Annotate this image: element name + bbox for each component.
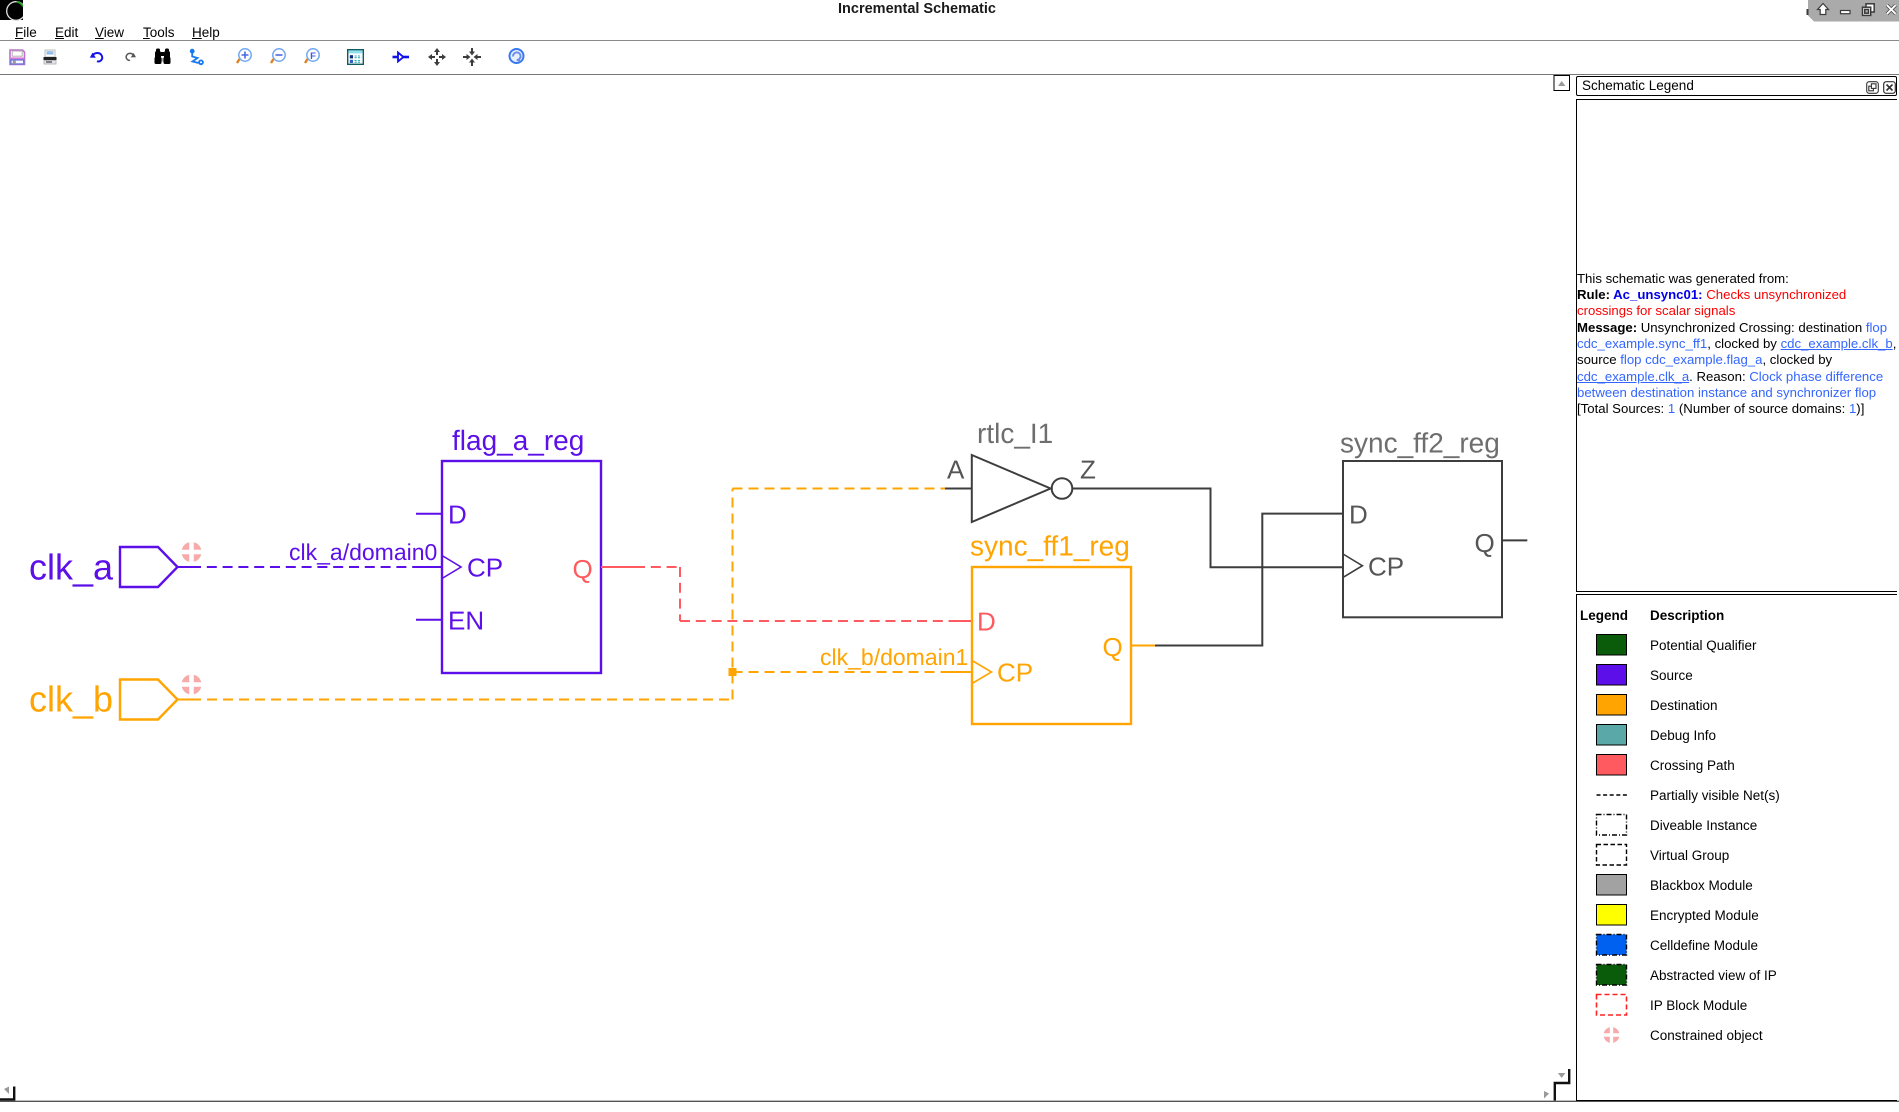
redo bbox=[126, 53, 134, 60]
close bbox=[1887, 5, 1896, 14]
options dialog bbox=[348, 50, 364, 65]
legend swatch: Crossing Path bbox=[1597, 755, 1627, 776]
flop sync_ff2_reg : body bbox=[1343, 461, 1502, 617]
inverter rtlc_I1 : triangle bbox=[972, 455, 1051, 522]
net rtlc_I1.Z -> sync_ff2.CP (gray) bbox=[1072, 489, 1343, 568]
panel legend box bbox=[1576, 594, 1897, 1101]
svg-text:clk_b/domain1: clk_b/domain1 bbox=[820, 644, 968, 670]
legend swatch: Encrypted Module bbox=[1597, 905, 1627, 926]
net sync_ff1.Q -> sync_ff2.D (gray) bbox=[1155, 514, 1343, 646]
crossing net flag_a_reg.Q -> sync_ff1_reg.D (red) bbox=[601, 566, 635, 568]
legend swatch: Constrained object bbox=[1602, 1025, 1621, 1045]
input port clk_b : symbol bbox=[120, 680, 178, 720]
svg-text:Q: Q bbox=[573, 554, 593, 584]
input port clk_a : symbol bbox=[120, 547, 178, 587]
pin EN stub (flag_a_reg) bbox=[416, 619, 442, 621]
TOOLBAR ICONS bbox=[0, 46, 540, 72]
panel title buttons bbox=[1866, 81, 1898, 95]
svg-text:CP: CP bbox=[1368, 552, 1404, 582]
svg-text:CP: CP bbox=[997, 658, 1033, 688]
svg-text:Q: Q bbox=[1475, 528, 1495, 558]
svg-text:rtlc_I1: rtlc_I1 bbox=[977, 418, 1053, 449]
pin Q stub / output net (sync_ff2_reg) bbox=[1502, 539, 1527, 541]
minimize bbox=[1841, 11, 1851, 14]
svg-text:clk_b: clk_b bbox=[29, 679, 113, 720]
legend swatch: Destination bbox=[1597, 695, 1627, 716]
inverter rtlc_I1 : bubble bbox=[1052, 478, 1073, 499]
panel title bar bbox=[1576, 76, 1897, 96]
legend swatch: Abstracted view of IP bbox=[1597, 965, 1627, 986]
zoom in bbox=[237, 49, 251, 63]
inverter rtlc_I1 : pin A stub bbox=[945, 488, 972, 490]
svg-text:clk_a: clk_a bbox=[29, 547, 114, 588]
pin D stub (flag_a_reg) bbox=[416, 513, 442, 515]
menu bar bbox=[15, 25, 37, 40]
constrained object icon (clk_a) bbox=[181, 541, 202, 563]
svg-text:Z: Z bbox=[1080, 455, 1096, 485]
window buttons bbox=[1806, 0, 1899, 23]
svg-text:clk_a/domain0: clk_a/domain0 bbox=[289, 539, 437, 565]
probe bbox=[393, 53, 410, 62]
window title bar bbox=[0, 0, 1899, 22]
svg-text:A: A bbox=[947, 455, 965, 485]
junction (clk_b net) bbox=[729, 668, 737, 676]
legend swatch: Celldefine Module bbox=[1597, 935, 1627, 956]
svg-text:EN: EN bbox=[448, 606, 484, 636]
undo bbox=[92, 53, 102, 61]
print bbox=[44, 50, 57, 64]
svg-text:sync_ff2_reg: sync_ff2_reg bbox=[1340, 428, 1500, 459]
net clk_b branch to inverter A bbox=[733, 488, 946, 490]
pin CP clock wedge (sync_ff1_reg) bbox=[972, 661, 992, 684]
toolbar separator / canvas top border bbox=[0, 74, 1899, 75]
pin CP clock wedge (sync_ff2_reg) bbox=[1343, 554, 1362, 577]
net clk_b (dashed orange) horizontal from port bbox=[178, 699, 191, 701]
legend swatch: Source bbox=[1597, 665, 1627, 686]
svg-text:D: D bbox=[1349, 500, 1368, 530]
shade/up icon bbox=[1818, 4, 1829, 15]
pin CP clock wedge (flag_a_reg) bbox=[442, 556, 461, 579]
trace path bbox=[190, 49, 204, 66]
svg-text:CP: CP bbox=[467, 553, 503, 583]
reload bbox=[510, 49, 524, 63]
legend swatch: Partially visible Net(s) bbox=[1597, 794, 1628, 796]
app logo bbox=[0, 0, 23, 21]
canvas v-scrollbar bottom arrow bbox=[1558, 1073, 1566, 1078]
legend swatch: Debug Info bbox=[1597, 725, 1627, 746]
flop flag_a_reg : body bbox=[442, 461, 601, 673]
constrained object icon (clk_b) bbox=[181, 674, 202, 697]
canvas h-scrollbar left arrow bbox=[4, 1087, 9, 1095]
zoom fit bbox=[305, 49, 319, 63]
window title bbox=[0, 1, 1834, 17]
binoculars bbox=[155, 49, 171, 65]
panel message box bbox=[1576, 99, 1897, 592]
canvas v-scrollbar up button bbox=[1554, 76, 1570, 91]
save bbox=[10, 50, 25, 65]
legend swatch: IP Block Module bbox=[1597, 995, 1627, 1016]
svg-text:Q: Q bbox=[1103, 632, 1123, 662]
zoom out bbox=[271, 49, 285, 63]
flop sync_ff1_reg : body bbox=[972, 567, 1131, 724]
legend swatch: Potential Qualifier bbox=[1597, 635, 1627, 656]
net clk_b vertical riser bbox=[732, 489, 734, 700]
legend swatch: Blackbox Module bbox=[1597, 875, 1627, 896]
collapse bbox=[463, 48, 481, 66]
expand bbox=[428, 48, 446, 66]
maximize / restore bbox=[1863, 4, 1875, 16]
legend swatch: Virtual Group bbox=[1597, 845, 1627, 866]
svg-text:sync_ff1_reg: sync_ff1_reg bbox=[970, 531, 1130, 562]
net clk_b branch to sync_ff1 CP bbox=[733, 671, 951, 673]
scrollbar corner frame marks bbox=[1555, 1069, 1569, 1101]
svg-text:D: D bbox=[977, 607, 996, 637]
svg-text:flag_a_reg: flag_a_reg bbox=[452, 425, 584, 456]
legend swatch: Diveable Instance bbox=[1597, 815, 1627, 836]
net clk_a (dashed purple) bbox=[178, 566, 191, 568]
canvas h-scrollbar right arrow bbox=[1544, 1091, 1549, 1099]
pin Q stub (sync_ff1_reg) bbox=[1131, 645, 1155, 647]
svg-text:D: D bbox=[448, 500, 467, 530]
